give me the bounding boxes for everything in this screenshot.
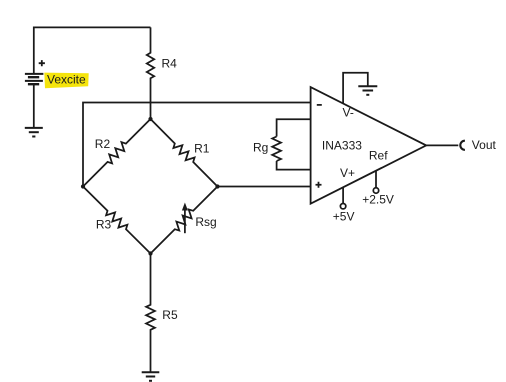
- wire Ref pin: [375, 171, 377, 188]
- terminal Vout connector: [460, 141, 465, 150]
- node bridge bottom: [148, 251, 152, 255]
- resistor R2: [83, 119, 151, 187]
- wire top loop from battery to R4: [34, 27, 151, 73]
- svg-text:Vout: Vout: [472, 138, 497, 152]
- ground at V-: [358, 85, 377, 87]
- ground below battery: [25, 127, 43, 129]
- wire V+ pin: [342, 187, 344, 203]
- ground below R5: [142, 371, 160, 373]
- svg-text:R4: R4: [162, 56, 178, 70]
- battery plus sign: [39, 60, 45, 66]
- svg-text:R2: R2: [95, 137, 111, 151]
- svg-text:Rsg: Rsg: [195, 215, 216, 229]
- terminal +5V: [340, 204, 345, 209]
- resistor R1: [151, 119, 218, 187]
- node bridge left: [81, 184, 85, 188]
- resistor R3: [83, 187, 151, 254]
- resistor R5: [146, 254, 155, 373]
- svg-text:+2.5V: +2.5V: [362, 193, 394, 207]
- svg-text:Vexcite: Vexcite: [47, 73, 86, 87]
- highlight Vexcite: [44, 73, 88, 89]
- wire output: [426, 144, 458, 146]
- resistor Rsg strain gauge: [151, 187, 218, 254]
- svg-text:V-: V-: [343, 106, 354, 120]
- svg-text:Rg: Rg: [253, 141, 268, 155]
- svg-text:+5V: +5V: [333, 209, 355, 223]
- node bridge right: [215, 184, 219, 188]
- node bridge top: [148, 117, 152, 121]
- resistor Rg: [277, 119, 311, 136]
- svg-text:V+: V+: [340, 166, 355, 180]
- battery Vexcite: [25, 74, 44, 84]
- op-amp U1 INA333 triangle: [311, 87, 427, 204]
- pin label plus: [316, 182, 322, 188]
- svg-text:Ref: Ref: [369, 148, 388, 162]
- svg-text:INA333: INA333: [322, 139, 362, 153]
- wire battery to ground: [33, 84, 35, 128]
- svg-text:R1: R1: [194, 141, 210, 155]
- terminal +2.5V: [373, 188, 378, 193]
- pin label minus: [317, 104, 322, 106]
- arrow of Rsg: [184, 209, 186, 233]
- wire V- pin to ground: [343, 73, 368, 104]
- wire plus-input: [218, 186, 311, 188]
- wire minus-input rail: [83, 103, 311, 187]
- resistor R4: [147, 27, 154, 119]
- svg-text:R3: R3: [96, 218, 112, 232]
- svg-text:R5: R5: [162, 308, 178, 322]
